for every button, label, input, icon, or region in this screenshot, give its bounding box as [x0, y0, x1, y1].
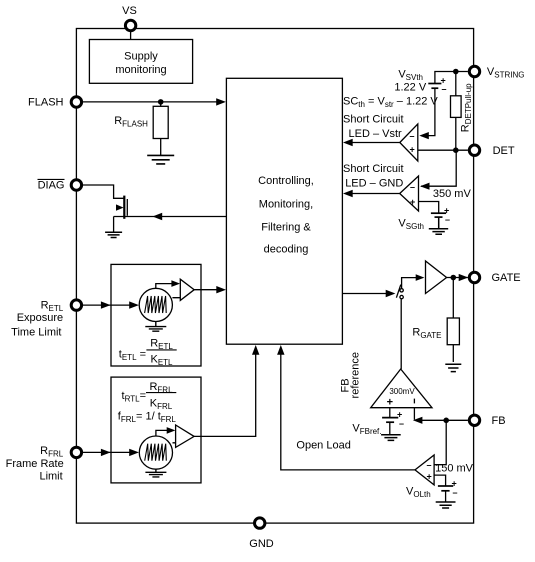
- svg-text:RFLASH: RFLASH: [114, 115, 148, 128]
- label battery signs VOLth: [452, 478, 458, 497]
- svg-text:Time Limit: Time Limit: [11, 327, 61, 339]
- label tETL formula: [119, 338, 177, 368]
- label comparator1 minus plus: [410, 131, 415, 155]
- wire FB minus input vertical: [413, 408, 415, 420]
- arrowhead into FRL buffer: [167, 427, 176, 434]
- arrowhead comparator2 minus input: [420, 183, 430, 190]
- ground FRL oscillator: [145, 469, 166, 477]
- wire gate line from control block to Q1: [114, 216, 227, 218]
- svg-text:+: +: [387, 396, 393, 408]
- label comparator2 minus plus: [410, 182, 415, 207]
- svg-text:Monitoring,: Monitoring,: [259, 198, 313, 210]
- svg-text:–: –: [399, 419, 404, 429]
- node DET junction: [453, 147, 459, 153]
- wire RGATE junction down to resistor: [452, 278, 454, 319]
- ground RFLASH: [147, 155, 174, 164]
- wire open-load plus input to VOLth battery: [434, 475, 446, 486]
- resistor RDET pull-up: [451, 72, 462, 151]
- pin RFRL: [71, 447, 81, 457]
- wire comparator1 output to control block: [346, 142, 400, 144]
- battery VSGth 350mV: [431, 213, 446, 217]
- svg-text:fFRL= 1/ tFRL: fFRL= 1/ tFRL: [118, 411, 177, 425]
- svg-text:VSTRING: VSTRING: [487, 66, 525, 80]
- svg-text:–: –: [427, 460, 432, 470]
- svg-text:DET: DET: [493, 145, 515, 157]
- block FRL timer: [111, 377, 201, 483]
- ground VFBref: [381, 435, 401, 441]
- svg-text:–: –: [442, 84, 447, 94]
- svg-text:Short Circuit: Short Circuit: [343, 163, 404, 175]
- node FLASH-RFLASH junction: [158, 99, 164, 105]
- battery VFBref: [382, 418, 398, 423]
- svg-text:–: –: [410, 131, 415, 141]
- svg-text:Filtering &: Filtering &: [261, 222, 311, 234]
- svg-text:decoding: decoding: [264, 243, 309, 255]
- wire FB minus dashed tick inside triangle: [413, 399, 415, 404]
- op-amp comparator2 short circuit LED-GND: [400, 176, 419, 211]
- svg-text:LED – GND: LED – GND: [345, 178, 403, 190]
- ground RGATE: [445, 364, 461, 371]
- ground VSGth: [429, 217, 448, 234]
- op-amp comparator1 short circuit LED-Vstr: [400, 124, 418, 161]
- IC boundary box: [76, 29, 473, 524]
- svg-text:–: –: [410, 182, 415, 192]
- svg-text:Short Circuit: Short Circuit: [343, 113, 404, 125]
- arrowhead comparator1 minus input: [419, 132, 429, 139]
- ground Q1 source: [105, 232, 122, 237]
- arrowhead FB wire into minus input: [413, 417, 423, 424]
- wire comparator2 plus input to VSGth battery: [419, 202, 439, 213]
- svg-text:–: –: [453, 488, 458, 498]
- node GATE-RGATE junction: [451, 275, 457, 281]
- switch S1: [396, 285, 403, 299]
- battery VSVth 1.22V: [428, 84, 441, 89]
- op-amp open-load comparator: [415, 455, 434, 485]
- svg-text:RETL: RETL: [150, 338, 173, 352]
- svg-text:RFRL: RFRL: [40, 445, 64, 459]
- pin DIAG: [71, 180, 81, 190]
- svg-text:Open Load: Open Load: [296, 439, 350, 451]
- node VSTRING junction: [453, 69, 459, 75]
- svg-text:monitoring: monitoring: [115, 64, 166, 76]
- pin GATE: [469, 272, 479, 282]
- svg-text:GATE: GATE: [492, 272, 521, 284]
- svg-text:Exposure: Exposure: [17, 312, 63, 324]
- wire RGATE resistor to ground: [452, 345, 454, 362]
- svg-text:Frame Rate: Frame Rate: [6, 458, 64, 470]
- wire ETL oscillator to buffer: [156, 284, 181, 298]
- wire DIAG to transistor drain: [83, 185, 124, 198]
- pin FLASH: [71, 97, 81, 107]
- op-amp FRL buffer: [176, 425, 195, 447]
- svg-text:DIAG: DIAG: [38, 180, 65, 192]
- label open-load minus plus: [427, 460, 432, 482]
- wire transistor source to ground: [113, 217, 115, 232]
- svg-text:VS: VS: [122, 5, 137, 17]
- svg-text:300mV: 300mV: [389, 387, 415, 396]
- op-amp ETL buffer: [180, 279, 194, 300]
- arrowhead ETL output into block: [216, 286, 226, 293]
- wire FLASH to control block: [83, 101, 217, 103]
- wire RETL pin to ETL block: [83, 304, 136, 306]
- svg-text:KETL: KETL: [150, 354, 173, 368]
- transistor Q1 open drain DIAG: [116, 196, 127, 219]
- arrowhead RFRL into oscillator: [129, 449, 139, 456]
- arrowhead RETL at ETL box: [101, 301, 111, 308]
- label Short Circuit LED-GND: [343, 163, 404, 190]
- label battery signs VFBref: [397, 409, 404, 428]
- label Supply monitoring: [115, 50, 166, 75]
- pin FB: [469, 415, 479, 425]
- wire RFRL pin to FRL block: [83, 451, 136, 453]
- label tRTL formula: [122, 381, 177, 411]
- svg-text:LED – Vstr: LED – Vstr: [349, 128, 403, 140]
- arrowhead RETL into oscillator: [129, 301, 139, 308]
- wire FB pin to minus input of FB reference: [416, 419, 468, 421]
- block ETL timer: [111, 264, 201, 366]
- arrowhead open-load line up into block bottom: [277, 345, 284, 355]
- svg-text:tRTL=: tRTL=: [122, 390, 146, 404]
- wire FRL buffer output up to control block: [194, 348, 256, 436]
- svg-text:–: –: [445, 215, 450, 225]
- wire open-load output to control block: [281, 348, 415, 470]
- arrowhead comparator1 output into block: [343, 139, 353, 146]
- pin RETL: [71, 300, 81, 310]
- wire control block to switch: [342, 293, 393, 295]
- ground ETL oscillator: [145, 322, 166, 332]
- svg-text:Controlling,: Controlling,: [258, 175, 314, 187]
- arrowhead gate buffer output at GATE pin: [459, 274, 469, 281]
- label Short Circuit LED-Vstr: [343, 113, 404, 140]
- svg-text:VOLth: VOLth: [406, 485, 431, 499]
- block supply monitoring: [89, 40, 192, 84]
- svg-text:150 mV: 150 mV: [435, 463, 474, 475]
- arrowhead into gate buffer: [416, 274, 425, 281]
- label FB reference rotated: [340, 352, 362, 398]
- svg-text:Supply: Supply: [124, 50, 158, 62]
- battery VOLth 150mV: [438, 486, 453, 491]
- oscillator ETL: [139, 288, 172, 321]
- wire FB reference plus input to VFBref battery: [389, 408, 391, 418]
- svg-text:RGATE: RGATE: [412, 326, 441, 340]
- pin DET: [469, 145, 479, 155]
- svg-text:1.22 V: 1.22 V: [394, 82, 426, 94]
- op-amp FB reference error amplifier: [371, 369, 432, 408]
- wire VSTRING to VSVth battery: [435, 72, 468, 84]
- svg-text:+: +: [410, 145, 415, 155]
- oscillator FRL: [139, 436, 172, 469]
- svg-text:VSGth: VSGth: [398, 217, 424, 231]
- pin VSTRING: [469, 66, 479, 76]
- svg-text:KFRL: KFRL: [150, 398, 173, 412]
- wire ETL buffer output to control block: [194, 289, 223, 291]
- resistor RFLASH: [153, 102, 168, 155]
- wire VSVth battery to comparator1 minus input: [421, 89, 435, 136]
- arrowhead into switch: [386, 290, 396, 297]
- svg-text:SCth = Vstr – 1.22 V: SCth = Vstr – 1.22 V: [343, 96, 438, 110]
- arrowhead gate drive pointing left: [153, 213, 163, 220]
- arrowhead FLASH into block: [216, 98, 226, 105]
- wire VOLth battery to ground: [445, 491, 447, 502]
- wire switch to gate buffer input: [402, 278, 422, 289]
- arrowhead FRL line up into block bottom: [252, 345, 259, 355]
- op-amp gate driver buffer: [426, 261, 447, 294]
- pin VS: [125, 20, 135, 30]
- svg-text:reference: reference: [350, 352, 362, 398]
- resistor RGATE: [447, 318, 459, 345]
- node FB junction: [443, 418, 449, 424]
- svg-text:VSVth: VSVth: [398, 68, 423, 82]
- wire FB junction down to open-load comparator minus input: [434, 420, 446, 464]
- label battery signs VSGth: [444, 206, 450, 225]
- label DIAG with overline: [38, 179, 65, 191]
- svg-text:+: +: [427, 472, 432, 482]
- arrowhead into ETL buffer: [171, 280, 180, 287]
- arrowhead comparator2 output into block: [343, 190, 353, 197]
- wire VFBref battery to ground: [389, 423, 391, 435]
- wire FRL oscillator to buffer: [156, 430, 176, 442]
- svg-text:350 mV: 350 mV: [433, 188, 472, 200]
- wire comparator1 plus input to DET: [418, 149, 468, 151]
- arrowhead RFRL at FRL box: [101, 449, 111, 456]
- svg-text:FB: FB: [492, 415, 506, 427]
- label battery signs VSVth: [441, 76, 447, 95]
- block controlling monitoring filtering decoding: [226, 78, 342, 344]
- svg-text:VFBref.: VFBref.: [352, 423, 381, 437]
- ground VOLth: [436, 502, 456, 508]
- svg-text:tETL =: tETL =: [119, 348, 146, 362]
- label Controlling Monitoring Filtering decoding: [258, 175, 314, 255]
- wire VS stem to supply monitoring: [130, 32, 132, 40]
- pin GND: [255, 518, 265, 528]
- svg-text:Limit: Limit: [39, 470, 62, 482]
- wire gate buffer output to GATE pin: [447, 277, 468, 279]
- svg-text:FLASH: FLASH: [28, 97, 64, 109]
- wire switch lower contact down to FB reference: [400, 299, 402, 369]
- svg-text:+: +: [410, 197, 415, 207]
- wire comparator2 output to control block: [346, 193, 400, 195]
- svg-text:GND: GND: [249, 538, 274, 550]
- wire DET to comparator2 minus input: [421, 150, 456, 186]
